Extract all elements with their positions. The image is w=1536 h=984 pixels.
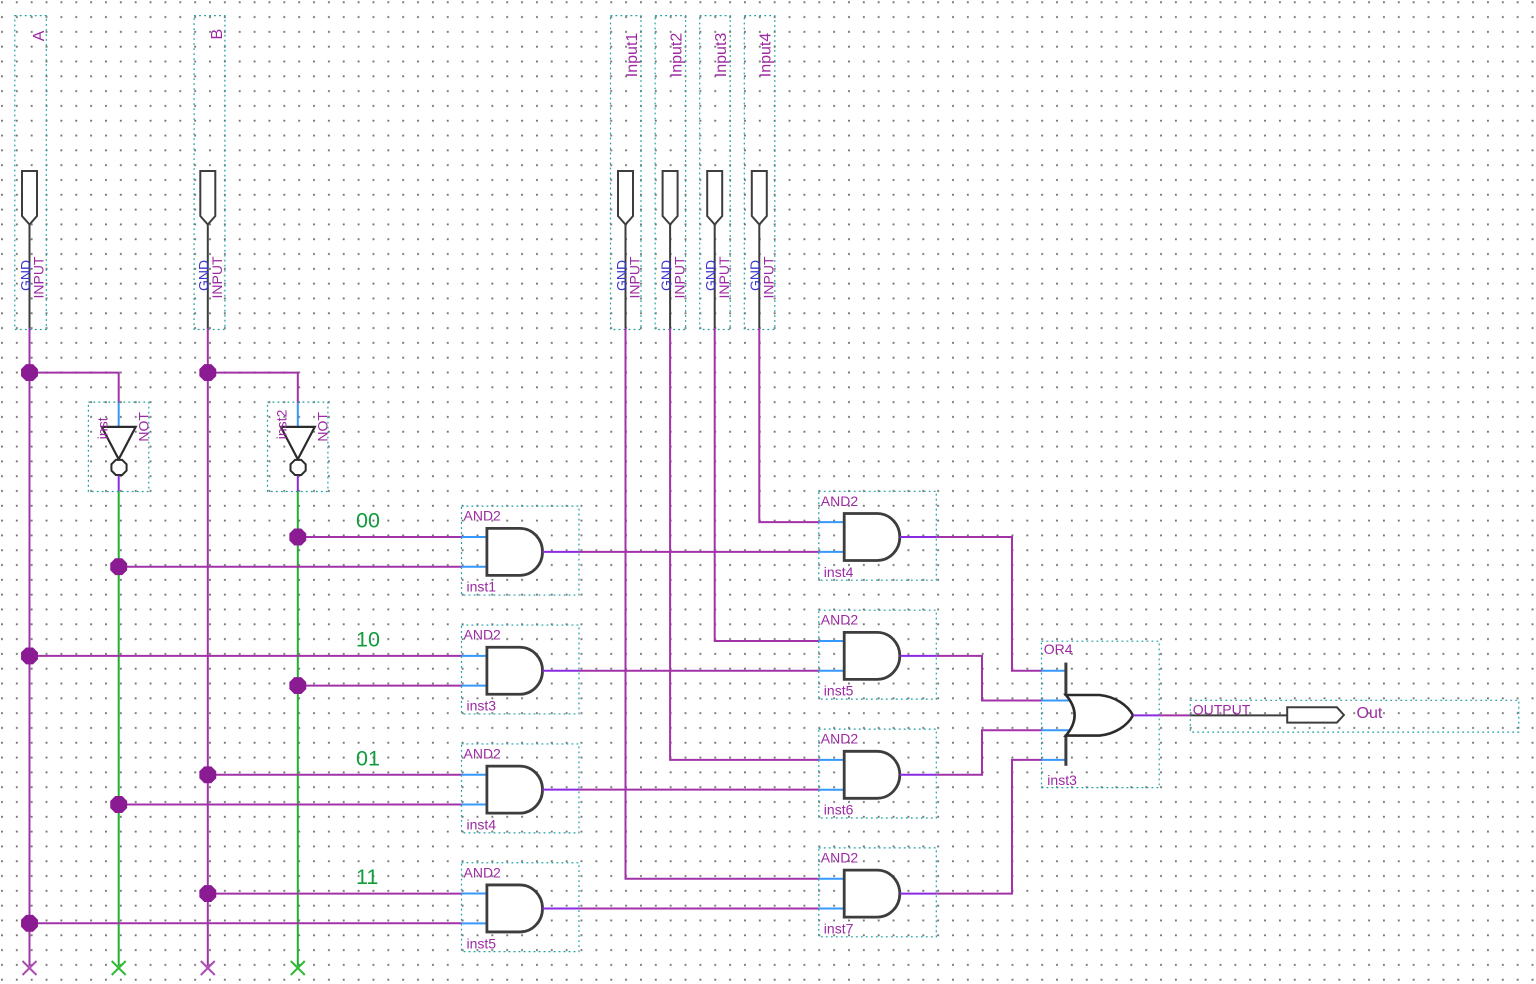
wire left AND row 3 output to right AND input [579, 789, 819, 791]
input pin Input2 lead [669, 225, 671, 330]
svg-text:OUTPUT: OUTPUT [1193, 702, 1251, 718]
junction at (118.7,566.7) [111, 559, 127, 575]
svg-text:inst2: inst2 [273, 409, 289, 439]
svg-text:inst4: inst4 [467, 816, 497, 832]
output pin lead line [1190, 714, 1287, 716]
svg-text:01: 01 [356, 746, 380, 770]
svg-text:AND2: AND2 [821, 731, 859, 747]
svg-text:AND2: AND2 [464, 745, 502, 761]
input pin B selection box [194, 16, 225, 330]
AND2 gate R/inst4 output stub [900, 536, 937, 538]
AND2 gate R/inst6 body [844, 751, 900, 798]
svg-text:INPUT: INPUT [716, 256, 732, 298]
OR4 gate inst3 selection box [1042, 641, 1160, 787]
wire net Input3 from pin down to right AND gate [715, 328, 819, 641]
svg-text:inst7: inst7 [824, 920, 854, 936]
AND2 gate L/inst5 input stub 1 [462, 893, 487, 895]
wire left AND row 2 output to right AND input [579, 670, 819, 672]
junction on B at NOT branch [200, 365, 216, 381]
svg-text:A: A [31, 30, 48, 41]
AND2 gate R/inst7 output stub [900, 893, 937, 895]
NOT gate inst2 triangle [281, 427, 315, 459]
svg-text:INPUT: INPUT [671, 256, 687, 298]
input pin Input1 selection box [611, 16, 642, 330]
wire right AND inst6 output to OR4 input 3 [936, 730, 1041, 775]
row 00 input1 wire (from NOT-B) [298, 536, 462, 538]
wire NOT-B output green vertical [297, 491, 299, 966]
svg-text:inst5: inst5 [824, 683, 854, 699]
AND2 gate L/inst1 selection box [462, 506, 580, 595]
AND2 gate R/inst6 selection box [819, 729, 937, 818]
AND2 gate L/inst4 output stub [543, 789, 580, 791]
svg-text:inst3: inst3 [467, 698, 497, 714]
input pin A selection box [15, 16, 47, 330]
input pin Input2 symbol [663, 171, 678, 225]
input pin Input2 selection box [655, 16, 686, 330]
NOT gate inst2 bubble [291, 460, 306, 475]
NOT gate inst input stub [118, 403, 120, 427]
OR4 gate inst3 output stub [1133, 714, 1159, 716]
svg-text:inst5: inst5 [467, 935, 497, 951]
svg-text:NOT: NOT [135, 412, 151, 442]
AND2 gate L/inst5 output stub [543, 907, 580, 909]
AND2 gate L/inst1 output stub [543, 551, 580, 553]
dangling end X mark net NOT-B [291, 961, 305, 975]
AND2 gate L/inst3 selection box [462, 625, 580, 714]
NOT gate inst2 output stub [297, 476, 299, 492]
NOT gate inst bubble [111, 460, 126, 475]
svg-text:inst6: inst6 [824, 802, 854, 818]
svg-text:inst4: inst4 [824, 564, 854, 580]
input pin Input3 selection box [700, 16, 731, 330]
OR4 gate inst3 body [1066, 695, 1133, 736]
svg-text:INPUT: INPUT [761, 256, 777, 298]
svg-text:Out: Out [1357, 705, 1383, 722]
svg-text:INPUT: INPUT [627, 256, 643, 298]
svg-text:Input3: Input3 [713, 33, 730, 78]
AND2 gate R/inst7 body [844, 870, 900, 917]
wire right AND inst4 output to OR4 input 1 [936, 537, 1041, 671]
OR4 gate inst3 input bars [1064, 663, 1067, 696]
NOT gate inst2 input stub [297, 403, 299, 427]
row 10 input1 wire (from A) [30, 655, 462, 657]
output pin Out selection box [1190, 700, 1519, 732]
AND2 gate L/inst5 selection box [462, 863, 580, 952]
wire net Input2 from pin down to right AND gate [670, 328, 819, 760]
svg-text:00: 00 [356, 509, 380, 533]
AND2 gate R/inst5 selection box [819, 610, 937, 699]
svg-text:NOT: NOT [315, 412, 331, 442]
input pin Input4 selection box [744, 16, 775, 330]
AND2 gate R/inst6 output stub [900, 774, 937, 776]
wire net A vertical [29, 328, 31, 966]
svg-text:10: 10 [356, 627, 380, 651]
input pin B symbol [200, 171, 215, 225]
input pin Input3 lead [714, 225, 716, 330]
AND2 gate L/inst1 body [487, 528, 543, 575]
wire branch A to NOT inst [30, 373, 119, 404]
NOT gate inst triangle [102, 427, 136, 459]
dangling end X mark net A [23, 961, 37, 975]
AND2 gate L/inst4 input stub 1 [462, 774, 487, 776]
row 11 input2 wire (from A) [30, 922, 462, 924]
AND2 gate L/inst3 input stub 2 [462, 685, 487, 687]
dangling end X mark net NOT-A [112, 961, 126, 975]
input pin B lead [207, 225, 209, 330]
svg-text:inst1: inst1 [467, 579, 497, 595]
junction on A at NOT branch [22, 365, 38, 381]
AND2 gate R/inst5 input stub 2 [819, 670, 844, 672]
junction at (29.5,923.3) [22, 915, 38, 931]
row 10 input2 wire (from NOT-B) [298, 685, 462, 687]
AND2 gate R/inst4 input stub 2 [819, 551, 844, 553]
AND2 gate R/inst4 input stub 1 [819, 521, 844, 523]
AND2 gate L/inst3 output stub [543, 670, 580, 672]
wire branch B to NOT inst2 [208, 373, 298, 404]
wire right AND inst7 output to OR4 input 4 [936, 760, 1041, 894]
svg-text:OR4: OR4 [1044, 641, 1073, 657]
input pin A lead [29, 225, 31, 330]
wire net Input4 from pin down to right AND gate [759, 328, 819, 522]
row 01 input2 wire (from NOT-A) [119, 804, 462, 806]
svg-text:inst: inst [94, 417, 110, 439]
wire left AND row 1 output to right AND input [579, 551, 819, 553]
junction at (118.7,804.5) [111, 797, 127, 813]
row 01 input1 wire (from B) [208, 774, 462, 776]
NOT gate inst output stub [118, 476, 120, 492]
svg-text:AND2: AND2 [464, 508, 502, 524]
junction at (207.8,893.6) [200, 886, 216, 902]
AND2 gate L/inst4 input stub 2 [462, 804, 487, 806]
wire right AND inst5 output to OR4 input 2 [936, 656, 1041, 701]
AND2 gate L/inst3 input stub 1 [462, 655, 487, 657]
AND2 gate R/inst7 input stub 1 [819, 878, 844, 880]
svg-text:INPUT: INPUT [209, 256, 225, 298]
AND2 gate R/inst6 input stub 2 [819, 789, 844, 791]
input pin Input3 symbol [707, 171, 722, 225]
AND2 gate L/inst5 body [487, 885, 543, 932]
output pin symbol [1287, 707, 1344, 722]
AND2 gate R/inst7 selection box [819, 848, 937, 937]
AND2 gate L/inst1 input stub 2 [462, 566, 487, 568]
svg-text:Input4: Input4 [758, 33, 775, 78]
row 11 input1 wire (from B) [208, 893, 462, 895]
AND2 gate R/inst5 body [844, 632, 900, 679]
input pin A symbol [22, 171, 37, 225]
svg-text:AND2: AND2 [464, 627, 502, 643]
input pin Input4 symbol [752, 171, 767, 225]
wire net B vertical [207, 328, 209, 966]
junction at (297.8,537.0) [290, 529, 306, 545]
AND2 gate R/inst4 selection box [819, 491, 937, 580]
svg-text:11: 11 [356, 865, 378, 889]
svg-text:AND2: AND2 [821, 612, 859, 628]
junction at (207.8,774.8) [200, 767, 216, 783]
AND2 gate R/inst5 input stub 1 [819, 640, 844, 642]
svg-text:Input2: Input2 [668, 33, 685, 78]
AND2 gate L/inst4 selection box [462, 744, 580, 833]
AND2 gate L/inst3 body [487, 647, 543, 694]
input pin Input1 lead [625, 225, 627, 330]
svg-text:INPUT: INPUT [31, 256, 47, 298]
AND2 gate R/inst7 input stub 2 [819, 908, 844, 910]
svg-text:Input1: Input1 [624, 33, 641, 78]
AND2 gate R/inst4 body [844, 514, 900, 561]
svg-text:AND2: AND2 [821, 493, 859, 509]
AND2 gate R/inst5 output stub [900, 655, 937, 657]
wire NOT-A output green vertical [118, 491, 120, 966]
input pin Input4 lead [758, 225, 760, 330]
junction at (297.8,685.6) [290, 678, 306, 694]
svg-text:AND2: AND2 [464, 864, 502, 880]
wire OR4 output to OUTPUT pin [1159, 714, 1191, 716]
wire left AND row 4 output to right AND input [579, 907, 819, 909]
AND2 gate R/inst6 input stub 1 [819, 759, 844, 761]
svg-text:AND2: AND2 [821, 849, 859, 865]
svg-text:B: B [209, 29, 226, 40]
NOT gate inst selection box [88, 402, 148, 491]
AND2 gate L/inst4 body [487, 766, 543, 813]
input pin Input1 symbol [618, 171, 633, 225]
wire net Input1 from pin down to right AND gate [626, 328, 819, 879]
AND2 gate L/inst1 input stub 1 [462, 536, 487, 538]
dangling end X mark net B [201, 961, 215, 975]
OR4 gate inst3 input stubs [1042, 670, 1067, 672]
junction at (29.5,655.9) [22, 648, 38, 664]
NOT gate inst2 selection box [268, 402, 328, 491]
row 00 input2 wire (from NOT-A) [119, 566, 462, 568]
svg-text:inst3: inst3 [1047, 772, 1077, 788]
AND2 gate L/inst5 input stub 2 [462, 922, 487, 924]
